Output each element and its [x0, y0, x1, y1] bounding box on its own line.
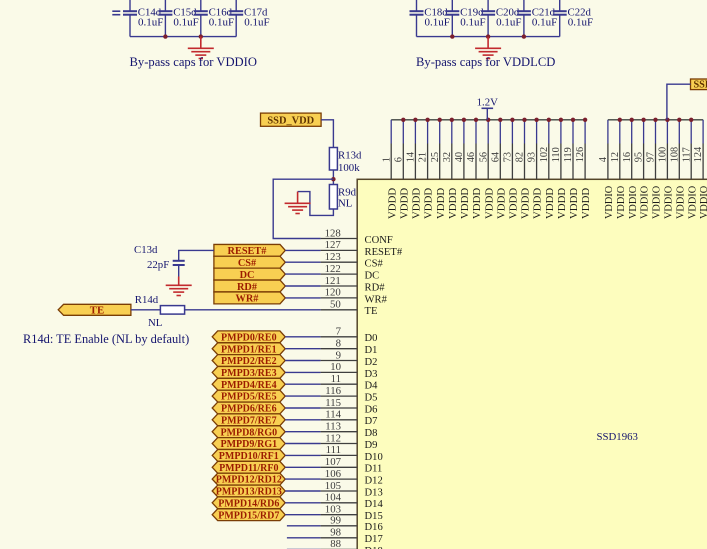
- svg-text:0.1uF: 0.1uF: [138, 17, 163, 29]
- svg-text:1.2V: 1.2V: [477, 97, 498, 109]
- junction: [630, 118, 634, 122]
- svg-text:32: 32: [442, 152, 453, 162]
- junction: [474, 118, 478, 122]
- pin 10 D3: [285, 361, 377, 380]
- svg-text:D5: D5: [365, 393, 378, 404]
- junction: [401, 118, 405, 122]
- port PMPD5/RE5: [212, 390, 285, 403]
- svg-text:14: 14: [406, 152, 417, 162]
- svg-text:120: 120: [325, 287, 341, 299]
- junction: [450, 34, 454, 38]
- svg-text:VDDD: VDDD: [435, 188, 447, 219]
- svg-text:PMPD6/RE6: PMPD6/RE6: [221, 404, 277, 415]
- pin 7 D0: [285, 326, 377, 345]
- svg-text:11: 11: [331, 373, 341, 385]
- pin 6 VDDD: [393, 120, 410, 219]
- svg-text:12: 12: [610, 152, 621, 162]
- svg-text:TE: TE: [365, 306, 378, 317]
- pin 21 VDDD: [418, 120, 435, 219]
- pin 97 VDDIO: [646, 120, 663, 219]
- power port SSD_VDD: [261, 113, 322, 127]
- junction: [413, 118, 417, 122]
- svg-text:SSD1963: SSD1963: [597, 431, 638, 443]
- pin 104 D14: [285, 492, 383, 511]
- svg-text:9: 9: [336, 349, 341, 361]
- resistor R14d NL: [135, 294, 185, 329]
- pin 117 VDDIO: [681, 120, 698, 219]
- pin 119 VDDD: [563, 120, 580, 219]
- junction: [571, 118, 575, 122]
- pin 113 D8: [285, 421, 377, 440]
- capacitor C21d 0.1uF: [517, 0, 557, 37]
- svg-text:VDDD: VDDD: [495, 188, 507, 219]
- svg-text:100k: 100k: [338, 162, 360, 174]
- svg-text:4: 4: [598, 157, 609, 162]
- pin 25 VDDD: [430, 120, 447, 219]
- IC U1 SSD1963 chip body: [357, 179, 707, 549]
- port PMPD8/RG0: [212, 426, 285, 439]
- pin 111 D10: [285, 444, 383, 463]
- svg-text:102: 102: [539, 147, 550, 162]
- svg-text:D6: D6: [365, 404, 378, 415]
- svg-text:VDDIO: VDDIO: [652, 185, 663, 219]
- junction: [522, 34, 526, 38]
- port PMPD9/RG1: [212, 438, 285, 451]
- pin 122 DC: [321, 263, 380, 282]
- port PMPD12/RD12: [212, 473, 285, 486]
- svg-text:16: 16: [622, 152, 633, 162]
- pin 9 D2: [285, 349, 377, 368]
- svg-text:108: 108: [669, 147, 680, 162]
- svg-text:VDDD: VDDD: [459, 188, 471, 219]
- svg-text:40: 40: [454, 152, 465, 162]
- svg-text:PMPD4/RE4: PMPD4/RE4: [221, 380, 277, 391]
- svg-text:VDDIO: VDDIO: [664, 185, 675, 219]
- port CS#: [214, 256, 285, 269]
- svg-text:PMPD9/RG1: PMPD9/RG1: [220, 439, 277, 450]
- wire: [285, 273, 320, 275]
- junction: [677, 118, 681, 122]
- pin 103 D15: [285, 504, 383, 523]
- svg-text:110: 110: [551, 147, 562, 162]
- ground: [166, 277, 192, 296]
- junction: [618, 118, 622, 122]
- svg-text:PMPD13/RD13: PMPD13/RD13: [216, 487, 282, 498]
- svg-text:98: 98: [330, 527, 341, 539]
- svg-text:VDDD: VDDD: [532, 188, 544, 219]
- wire R13d to R9d: [332, 170, 334, 185]
- svg-text:112: 112: [325, 432, 341, 444]
- svg-text:121: 121: [325, 275, 341, 287]
- port PMPD6/RE6: [212, 402, 285, 415]
- wire: [285, 297, 320, 299]
- pin 114 D7: [285, 409, 377, 428]
- svg-text:PMPD12/RD12: PMPD12/RD12: [216, 475, 282, 486]
- pin 32 VDDD: [442, 120, 459, 219]
- svg-text:D16: D16: [365, 522, 383, 533]
- svg-text:0.1uF: 0.1uF: [173, 17, 198, 29]
- resistor R13d 100k: [329, 148, 362, 174]
- wire R9d bottom to ground: [298, 192, 334, 216]
- svg-text:VDDIO: VDDIO: [699, 185, 707, 219]
- svg-text:NL: NL: [148, 317, 162, 329]
- pin 8 D1: [285, 338, 377, 357]
- pin 56 VDDD: [478, 120, 495, 219]
- svg-text:VDDD: VDDD: [556, 188, 568, 219]
- svg-text:22pF: 22pF: [147, 259, 169, 271]
- pin 110 VDDD: [551, 120, 568, 219]
- svg-text:DC: DC: [365, 271, 380, 282]
- svg-text:119: 119: [563, 147, 574, 162]
- svg-text:D2: D2: [365, 357, 378, 368]
- port PMPD4/RE4: [212, 378, 285, 391]
- svg-text:64: 64: [490, 152, 501, 162]
- capacitor C13d 22pF: [134, 244, 214, 276]
- svg-text:115: 115: [325, 397, 341, 409]
- svg-text:VDDD: VDDD: [580, 188, 592, 219]
- port PMPD10/RF1: [212, 450, 285, 463]
- junction: [534, 118, 538, 122]
- svg-text:124: 124: [693, 147, 704, 162]
- port PMPD0/RE0: [212, 331, 285, 344]
- svg-text:7: 7: [336, 326, 342, 338]
- pin 116 D5: [285, 385, 377, 404]
- svg-text:VDDD: VDDD: [508, 188, 520, 219]
- svg-text:104: 104: [325, 492, 342, 504]
- svg-text:126: 126: [575, 147, 586, 162]
- svg-text:0.1uF: 0.1uF: [244, 17, 269, 29]
- pin 98 D17: [287, 527, 383, 546]
- wire: [285, 261, 320, 263]
- pin 127 RESET#: [321, 239, 403, 258]
- svg-text:0.1uF: 0.1uF: [532, 17, 557, 29]
- svg-text:VDDIO: VDDIO: [687, 185, 698, 219]
- port PMPD11/RF0: [212, 461, 285, 474]
- svg-text:73: 73: [503, 152, 514, 162]
- power 1.2V: [477, 97, 498, 120]
- svg-text:99: 99: [330, 515, 341, 527]
- svg-text:97: 97: [646, 152, 657, 162]
- junction: [450, 118, 454, 122]
- junction: [486, 34, 490, 38]
- svg-text:122: 122: [325, 263, 341, 275]
- svg-text:CONF: CONF: [365, 235, 393, 246]
- pin 112 D9: [285, 432, 377, 451]
- port PMPD14/RD6: [212, 497, 285, 510]
- svg-text:VDDD: VDDD: [447, 188, 459, 219]
- svg-text:25: 25: [430, 152, 441, 162]
- svg-text:SSD_VDD: SSD_VDD: [267, 116, 314, 127]
- wire R14d to TE pin: [185, 309, 321, 311]
- svg-text:6: 6: [393, 157, 404, 162]
- svg-text:WR#: WR#: [365, 294, 388, 305]
- junction: [665, 118, 669, 122]
- pin 82 VDDD: [515, 120, 532, 219]
- svg-text:D13: D13: [365, 487, 383, 498]
- svg-text:D9: D9: [365, 440, 378, 451]
- svg-text:R13d: R13d: [338, 149, 362, 161]
- capacitor C18d 0.1uF: [410, 0, 450, 37]
- junction: [163, 34, 167, 38]
- capacitor C20d 0.1uF: [481, 0, 521, 37]
- svg-text:By-pass caps for VDDLCD: By-pass caps for VDDLCD: [416, 55, 555, 69]
- svg-text:VDDD: VDDD: [483, 188, 495, 219]
- junction: [641, 118, 645, 122]
- wire: [285, 249, 320, 251]
- svg-text:VDDIO: VDDIO: [616, 185, 627, 219]
- svg-text:21: 21: [418, 152, 429, 162]
- svg-text:RD#: RD#: [365, 282, 386, 293]
- svg-text:PMPD11/RF0: PMPD11/RF0: [219, 463, 278, 474]
- pin 1 VDDD: [381, 120, 398, 219]
- port SSD_VDD (clipped at right edge): [691, 79, 707, 91]
- port WR#: [214, 292, 285, 305]
- capacitor C14d 0.1uF: [123, 0, 163, 37]
- svg-text:107: 107: [325, 456, 342, 468]
- svg-text:TE: TE: [90, 305, 104, 317]
- svg-text:VDDD: VDDD: [411, 188, 423, 219]
- svg-text:0.1uF: 0.1uF: [568, 17, 593, 29]
- svg-text:VDDD: VDDD: [568, 188, 580, 219]
- svg-text:114: 114: [325, 409, 341, 421]
- pin 4 VDDIO: [598, 120, 615, 219]
- pin 12 VDDIO: [610, 120, 627, 219]
- svg-text:93: 93: [527, 152, 538, 162]
- wire junction to CONF pin 128: [273, 179, 333, 238]
- svg-text:PMPD10/RF1: PMPD10/RF1: [219, 451, 279, 462]
- svg-text:88: 88: [330, 538, 341, 549]
- wire TE port to R14d: [131, 309, 161, 311]
- wire VDDD power bus: [391, 119, 585, 121]
- svg-text:By-pass caps for VDDIO: By-pass caps for VDDIO: [130, 55, 257, 69]
- junction: [486, 118, 490, 122]
- port PMPD1/RE1: [212, 343, 285, 356]
- svg-text:1: 1: [381, 157, 392, 162]
- svg-text:106: 106: [325, 468, 342, 480]
- svg-text:D1: D1: [365, 345, 378, 356]
- svg-text:56: 56: [478, 152, 489, 162]
- svg-text:RESET#: RESET#: [365, 247, 403, 258]
- svg-text:50: 50: [330, 299, 341, 311]
- pin 120 WR#: [321, 287, 388, 306]
- wire SSD_VDD to R13d: [321, 120, 333, 148]
- wire bank1 ground bus: [130, 36, 236, 38]
- svg-text:105: 105: [325, 480, 341, 492]
- svg-text:VDDIO: VDDIO: [628, 185, 639, 219]
- svg-text:R14d: TE Enable (NL by default: R14d: TE Enable (NL by default): [23, 332, 189, 346]
- wire: [285, 285, 320, 287]
- svg-text:46: 46: [466, 152, 477, 162]
- port TE (left-pointing): [58, 304, 131, 316]
- ground: [475, 37, 501, 59]
- pin 108 VDDIO: [669, 120, 686, 219]
- svg-text:CS#: CS#: [238, 258, 257, 269]
- pin 64 VDDD: [490, 120, 507, 219]
- svg-text:PMPD7/RE7: PMPD7/RE7: [221, 415, 277, 426]
- svg-text:D17: D17: [365, 534, 383, 545]
- svg-text:PMPD14/RD6: PMPD14/RD6: [218, 498, 279, 509]
- svg-text:VDDD: VDDD: [544, 188, 556, 219]
- pin 100 VDDIO: [658, 120, 675, 219]
- junction: [425, 118, 429, 122]
- svg-text:8: 8: [336, 338, 341, 350]
- svg-text:PMPD1/RE1: PMPD1/RE1: [221, 344, 277, 355]
- capacitor C17d 0.1uF: [229, 0, 269, 37]
- pin 73 VDDD: [503, 120, 520, 219]
- pin 115 D6: [285, 397, 377, 416]
- junction: [199, 34, 203, 38]
- svg-text:RESET#: RESET#: [228, 246, 268, 257]
- wire bank2 ground bus: [417, 36, 560, 38]
- svg-text:0.1uF: 0.1uF: [209, 17, 234, 29]
- svg-text:VDDD: VDDD: [398, 188, 410, 219]
- svg-text:SSD: SSD: [694, 80, 707, 91]
- port PMPD13/RD13: [212, 485, 285, 498]
- svg-text:95: 95: [634, 152, 645, 162]
- pin 105 D13: [285, 480, 383, 499]
- capacitor C19d 0.1uF: [445, 0, 485, 37]
- port PMPD15/RD7: [212, 509, 285, 522]
- svg-text:PMPD5/RE5: PMPD5/RE5: [221, 392, 277, 403]
- junction: [510, 118, 514, 122]
- svg-text:0.1uF: 0.1uF: [496, 17, 521, 29]
- svg-text:D15: D15: [365, 511, 383, 522]
- svg-text:PMPD15/RD7: PMPD15/RD7: [218, 510, 279, 521]
- pin 102 VDDD: [539, 120, 556, 219]
- pin 50 TE: [321, 299, 378, 318]
- junction: [583, 118, 587, 122]
- svg-text:D11: D11: [365, 464, 383, 475]
- port PMPD3/RE3: [212, 367, 285, 380]
- svg-text:VDDD: VDDD: [423, 188, 435, 219]
- svg-text:D0: D0: [365, 333, 378, 344]
- junction: [522, 118, 526, 122]
- junction: [498, 118, 502, 122]
- svg-text:R14d: R14d: [135, 294, 159, 306]
- ground: [188, 37, 214, 59]
- svg-text:PMPD0/RE0: PMPD0/RE0: [221, 332, 277, 343]
- ground: [285, 192, 311, 214]
- capacitor C15d 0.1uF: [158, 0, 198, 37]
- pin 128 CONF: [321, 227, 393, 246]
- pin 107 D11: [285, 456, 382, 475]
- svg-text:CS#: CS#: [365, 259, 384, 270]
- svg-text:VDDD: VDDD: [520, 188, 532, 219]
- pin 14 VDDD: [406, 120, 423, 219]
- wire from SSD_VDD port to VDDIO bus: [667, 84, 691, 120]
- resistor R9d NL: [329, 185, 356, 210]
- port RD#: [214, 280, 285, 293]
- pin 106 D12: [285, 468, 383, 487]
- svg-text:D14: D14: [365, 499, 384, 510]
- pin 95 VDDIO: [634, 120, 651, 219]
- svg-text:NL: NL: [338, 198, 352, 210]
- svg-text:113: 113: [325, 421, 341, 433]
- svg-text:111: 111: [326, 444, 341, 456]
- junction: [438, 118, 442, 122]
- port PMPD7/RE7: [212, 414, 285, 427]
- junction: [689, 118, 693, 122]
- svg-text:127: 127: [325, 239, 342, 251]
- pin 126 VDDD: [575, 120, 592, 219]
- svg-text:116: 116: [325, 385, 341, 397]
- svg-text:0.1uF: 0.1uF: [460, 17, 485, 29]
- pin 40 VDDD: [454, 120, 471, 219]
- svg-text:82: 82: [515, 152, 526, 162]
- port DC: [214, 268, 285, 281]
- svg-text:D4: D4: [365, 381, 379, 392]
- port PMPD2/RE2: [212, 355, 285, 368]
- pin 99 D16: [287, 515, 383, 534]
- svg-text:100: 100: [658, 147, 669, 162]
- svg-text:C13d: C13d: [134, 244, 158, 256]
- svg-text:WR#: WR#: [236, 294, 260, 305]
- junction: [462, 118, 466, 122]
- svg-text:VDDIO: VDDIO: [640, 185, 651, 219]
- pin 124 VDDIO: [693, 120, 707, 219]
- junction node CONF: [331, 177, 335, 181]
- svg-text:PMPD8/RG0: PMPD8/RG0: [220, 427, 277, 438]
- capacitor C16d 0.1uF: [194, 0, 234, 37]
- pin 16 VDDIO: [622, 120, 639, 219]
- pin 93 VDDD: [527, 120, 544, 219]
- svg-text:VDDIO: VDDIO: [675, 185, 686, 219]
- svg-text:PMPD2/RE2: PMPD2/RE2: [221, 356, 277, 367]
- svg-text:VDDD: VDDD: [471, 188, 483, 219]
- svg-text:D3: D3: [365, 369, 378, 380]
- pin 11 D4: [285, 373, 378, 392]
- svg-text:VDDD: VDDD: [386, 188, 398, 219]
- svg-text:0.1uF: 0.1uF: [425, 17, 450, 29]
- pin 123 CS#: [321, 251, 384, 270]
- svg-text:RD#: RD#: [237, 282, 258, 293]
- svg-text:D10: D10: [365, 452, 383, 463]
- pin 121 RD#: [321, 275, 386, 294]
- svg-text:128: 128: [325, 227, 341, 239]
- junction: [559, 118, 563, 122]
- svg-text:VDDIO: VDDIO: [604, 185, 615, 219]
- stray plate dashes left of C14d: [112, 10, 120, 12]
- svg-text:123: 123: [325, 251, 341, 263]
- junction: [653, 118, 657, 122]
- svg-text:D8: D8: [365, 428, 378, 439]
- svg-text:DC: DC: [240, 270, 255, 281]
- pin 46 VDDD: [466, 120, 483, 219]
- junction: [547, 118, 551, 122]
- capacitor C22d 0.1uF: [553, 0, 593, 37]
- wire VDDIO power bus: [608, 119, 703, 121]
- port RESET#: [214, 244, 285, 257]
- svg-text:D12: D12: [365, 476, 383, 487]
- svg-text:D7: D7: [365, 416, 378, 427]
- pin 88 D18: [287, 538, 383, 549]
- svg-text:10: 10: [330, 361, 341, 373]
- svg-text:PMPD3/RE3: PMPD3/RE3: [221, 368, 277, 379]
- svg-text:117: 117: [681, 147, 692, 162]
